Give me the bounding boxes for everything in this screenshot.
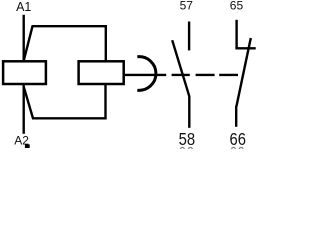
wire stub from box to arc (125, 74, 166, 76)
wire contact 57 top lead (188, 22, 190, 51)
svg-text:66: 66 (230, 130, 246, 149)
coil box K2 (right rectangle) (79, 61, 124, 84)
gray fragments below 66 (232, 147, 236, 151)
dashed mechanical link line (172, 74, 238, 76)
coil box K1 (left rectangle) (3, 61, 46, 84)
wire A1 lead (23, 15, 25, 61)
svg-text:65: 65 (230, 0, 244, 13)
wire contact 58 bottom lead (188, 96, 190, 128)
svg-text:A1: A1 (16, 0, 31, 14)
svg-text:58: 58 (179, 130, 195, 149)
svg-text:57: 57 (180, 0, 194, 13)
NC contact bar 65 (236, 47, 256, 49)
wire contact 65 top lead (235, 20, 237, 50)
wire A2 lead (23, 84, 25, 134)
NC contact blade 65-66 (236, 38, 250, 107)
wire top branch to second box (24, 26, 106, 61)
wire bottom branch from second box (24, 84, 106, 118)
wire contact 66 bottom lead (235, 106, 237, 127)
fragment black mark at bottom edge under A2 (25, 144, 30, 148)
gray fragments below 58 (181, 147, 185, 151)
mechanical operator arc (137, 57, 156, 91)
NO contact blade 57-58 (172, 40, 189, 96)
